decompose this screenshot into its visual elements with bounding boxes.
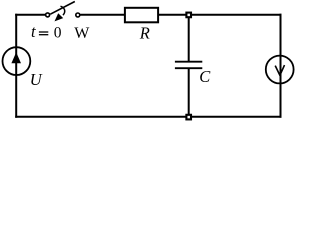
source right arrow down [266, 56, 294, 84]
wire [188, 68, 190, 117]
resistor R [125, 8, 158, 22]
wire [15, 14, 45, 16]
switch W right terminal [76, 13, 80, 17]
node junction top [186, 13, 191, 18]
wire [280, 14, 282, 118]
wire [158, 14, 186, 16]
switch W closing arrow [55, 6, 65, 21]
svg-text:R: R [139, 24, 150, 43]
wire [15, 116, 281, 118]
svg-text:C: C [199, 67, 211, 86]
svg-text:0: 0 [54, 24, 62, 41]
svg-text:t: t [31, 22, 36, 41]
svg-text:U: U [30, 70, 43, 89]
switch W arm [50, 2, 75, 15]
wire [192, 14, 282, 16]
wire [188, 18, 190, 63]
node junction bottom [186, 115, 191, 120]
svg-text:W: W [74, 25, 90, 42]
wire [80, 14, 125, 16]
capacitor C [175, 62, 202, 68]
wire [15, 14, 17, 118]
source U [3, 47, 31, 75]
switch W left terminal [46, 13, 50, 17]
label t = 0 [31, 22, 62, 41]
